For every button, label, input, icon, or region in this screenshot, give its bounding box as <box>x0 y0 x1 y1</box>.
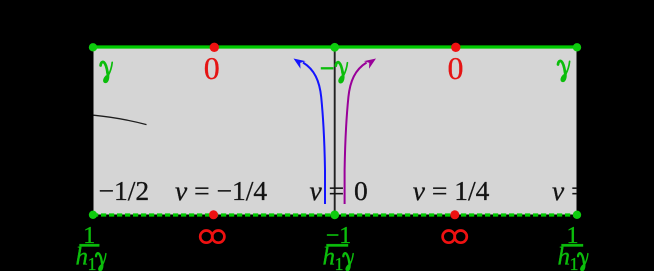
top boundary line (solid green) <box>92 45 579 48</box>
red dot bottom-quarter-right <box>450 210 459 219</box>
svg-text:v =: v = <box>310 175 345 206</box>
svg-text:v = −1/4: v = −1/4 <box>175 175 267 206</box>
svg-text:−1/2: −1/2 <box>99 175 150 206</box>
svg-text:0: 0 <box>204 50 220 86</box>
svg-text:h: h <box>558 244 571 271</box>
black field-line curve at left edge <box>94 115 147 124</box>
label gamma top-right <box>558 61 570 81</box>
svg-text:0: 0 <box>448 50 464 86</box>
green endpoint dot bottom-right <box>573 211 581 219</box>
green endpoint dot bottom-left <box>89 211 97 219</box>
purple trajectory curve <box>345 63 367 205</box>
green midpoint dot top-center <box>330 43 339 52</box>
svg-text:h: h <box>323 244 336 271</box>
label gamma top-left <box>101 62 113 82</box>
svg-text:h: h <box>76 244 89 271</box>
fraction 1/(h1 gamma) bottom-right <box>558 223 584 271</box>
blue arrowhead <box>294 59 306 69</box>
red dot top-quarter-left <box>210 43 219 52</box>
label infinity bottom-left-quarter (red) <box>200 231 224 243</box>
red dot top-quarter-right <box>451 43 460 52</box>
green endpoint dot top-right <box>573 43 581 51</box>
fraction -1/(h1 gamma) bottom-center <box>323 223 352 271</box>
green endpoint dot top-left <box>89 43 97 51</box>
blue trajectory curve <box>303 63 325 205</box>
svg-text:v = 1/4: v = 1/4 <box>413 175 490 206</box>
strip region (gray rectangle) <box>94 47 577 215</box>
vertical line v=0 <box>334 49 336 214</box>
bottom boundary line (dashed green) <box>93 213 577 216</box>
label infinity bottom-right-quarter (red) <box>443 231 467 243</box>
label minus-gamma top-center <box>321 62 348 82</box>
svg-text:0: 0 <box>354 175 368 206</box>
red dot bottom-quarter-left <box>209 210 218 219</box>
fraction 1/(h1 gamma) bottom-left <box>76 223 100 271</box>
svg-text:1: 1 <box>335 254 344 271</box>
green midpoint dot bottom-center <box>330 210 339 219</box>
purple arrowhead <box>364 59 376 69</box>
